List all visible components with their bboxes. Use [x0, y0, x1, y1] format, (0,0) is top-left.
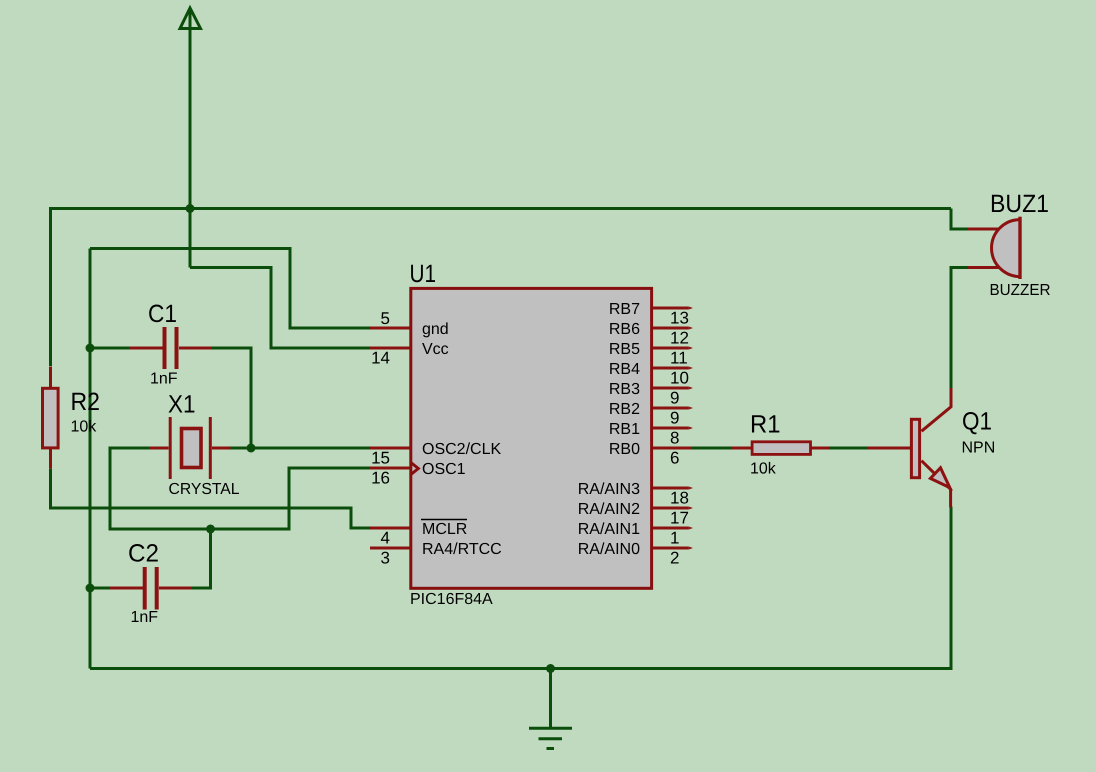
wire: C1 left stub: [90, 347, 130, 350]
pin 8 lead: [652, 427, 689, 430]
svg-text:MCLR: MCLR: [422, 521, 467, 538]
crystal X1: [150, 417, 231, 479]
node: junction C1 left: [86, 344, 95, 353]
svg-text:X1: X1: [168, 391, 196, 419]
node: junction ground rail: [546, 664, 555, 673]
wire: left vertical C1-C2 net: [89, 249, 92, 669]
IC right pin leads: [652, 308, 691, 548]
capacitor C1: [129, 327, 211, 369]
svg-text:BUZ1: BUZ1: [990, 190, 1049, 218]
svg-text:6: 6: [670, 449, 679, 468]
svg-text:1: 1: [670, 529, 679, 548]
svg-text:Vcc: Vcc: [422, 341, 449, 358]
pin 3 lead: [370, 547, 411, 550]
svg-text:OSC2/CLK: OSC2/CLK: [422, 441, 501, 458]
node: junction OSC2/crystal: [247, 444, 256, 453]
wire: top power rail: [51, 209, 952, 367]
svg-text:10k: 10k: [71, 419, 98, 436]
svg-text:Q1: Q1: [962, 408, 992, 436]
wire: crystal right to pin15: [231, 447, 371, 450]
svg-text:RA4/RTCC: RA4/RTCC: [422, 541, 502, 558]
pin 4 lead: [370, 527, 411, 530]
svg-text:9: 9: [670, 389, 679, 408]
svg-text:RA/AIN3: RA/AIN3: [578, 481, 640, 498]
wire: RB0 to R1: [691, 447, 731, 450]
pin 1 lead: [652, 527, 689, 530]
pin 13 lead: [652, 307, 689, 310]
power symbol VCC arrow: [180, 8, 201, 268]
wire: C1 right to OSC2 node: [211, 348, 251, 448]
pin 6 lead: [652, 447, 691, 450]
svg-text:15: 15: [371, 449, 390, 468]
svg-text:16: 16: [371, 469, 390, 488]
svg-text:RB1: RB1: [609, 421, 640, 438]
wire: R1 to Q1 base: [830, 447, 868, 450]
svg-text:5: 5: [381, 309, 390, 328]
buzzer BUZ1: [968, 217, 1020, 279]
svg-text:RB5: RB5: [609, 341, 640, 358]
svg-text:14: 14: [371, 349, 390, 368]
svg-text:PIC16F84A: PIC16F84A: [410, 591, 493, 608]
wire: gnd net to pin5: [90, 249, 370, 329]
transistor Q1: [868, 388, 951, 508]
node: junction power rail / vcc arrow: [186, 204, 195, 213]
svg-text:OSC1: OSC1: [422, 461, 466, 478]
svg-text:11: 11: [670, 349, 688, 368]
pin 5 lead: [370, 327, 411, 330]
svg-text:U1: U1: [410, 260, 437, 288]
svg-text:R2: R2: [71, 388, 101, 416]
svg-text:BUZZER: BUZZER: [990, 282, 1051, 299]
wire: vcc to pin14: [190, 268, 370, 349]
capacitor C2: [110, 567, 192, 610]
pin 2 lead: [652, 547, 689, 550]
pin 9 lead RB2: [652, 407, 689, 410]
svg-text:R1: R1: [750, 411, 781, 439]
svg-text:13: 13: [670, 309, 689, 328]
wire: Q1 emitter to ground rail: [950, 508, 953, 669]
svg-text:CRYSTAL: CRYSTAL: [169, 481, 240, 498]
node: junction OSC1/C2 riser: [206, 525, 215, 534]
svg-text:RA/AIN1: RA/AIN1: [578, 521, 640, 538]
svg-text:1nF: 1nF: [150, 371, 178, 388]
svg-text:12: 12: [670, 329, 689, 348]
svg-text:17: 17: [670, 509, 689, 528]
svg-text:C1: C1: [148, 300, 177, 328]
wire: crystal left to OSC1 pin16: [110, 448, 370, 529]
IC U1 body PIC16F84A: [411, 288, 652, 588]
pin 9 lead RB3: [652, 387, 689, 390]
pin 16 lead: [370, 467, 411, 470]
svg-text:gnd: gnd: [422, 321, 449, 338]
wire: buzzer bottom to collector: [951, 268, 968, 389]
svg-text:4: 4: [381, 529, 390, 548]
emitter: [922, 461, 951, 508]
svg-text:8: 8: [670, 429, 679, 448]
svg-text:2: 2: [670, 549, 679, 568]
svg-text:1nF: 1nF: [131, 609, 159, 626]
emitter arrowhead: [930, 468, 949, 488]
resistor R2: [43, 367, 59, 469]
pin 10 lead: [652, 367, 689, 370]
pin 17 lead: [652, 507, 689, 510]
base lead: [868, 447, 910, 450]
svg-text:3: 3: [381, 549, 390, 568]
svg-text:RA/AIN0: RA/AIN0: [578, 541, 640, 558]
svg-text:10: 10: [670, 369, 689, 388]
svg-text:RA/AIN2: RA/AIN2: [578, 501, 640, 518]
clock wedge pin16: [412, 463, 419, 474]
ground symbol: [529, 669, 572, 749]
svg-text:RB0: RB0: [609, 441, 640, 458]
svg-text:RB2: RB2: [609, 401, 640, 418]
wire: R2 bottom to MCLR pin4: [51, 469, 371, 528]
pin 12 lead: [652, 327, 689, 330]
MCLR overline: [421, 519, 467, 521]
pin 15 lead: [370, 447, 411, 450]
wire: ground rail: [90, 507, 951, 669]
svg-text:RB4: RB4: [609, 361, 640, 378]
wire: C2 riser: [192, 529, 211, 588]
svg-text:C2: C2: [128, 540, 159, 568]
wire: C2 left stub: [90, 587, 111, 590]
svg-text:18: 18: [670, 489, 689, 508]
node: junction C2 left: [86, 584, 95, 593]
base bar: [911, 419, 919, 477]
resistor R1: [731, 442, 830, 455]
svg-text:RB3: RB3: [609, 381, 640, 398]
svg-text:RB7: RB7: [609, 301, 640, 318]
svg-text:NPN: NPN: [962, 440, 996, 457]
wire: buzzer top lead net: [951, 209, 968, 230]
lead tips right side: [689, 307, 693, 550]
pin 18 lead: [652, 487, 689, 490]
svg-text:9: 9: [670, 409, 679, 428]
collector: [922, 388, 952, 431]
svg-text:10k: 10k: [750, 461, 777, 478]
pin 14 lead: [370, 347, 411, 350]
pin 11 lead: [652, 347, 689, 350]
svg-text:RB6: RB6: [609, 321, 640, 338]
IC left pin leads: [370, 328, 411, 548]
